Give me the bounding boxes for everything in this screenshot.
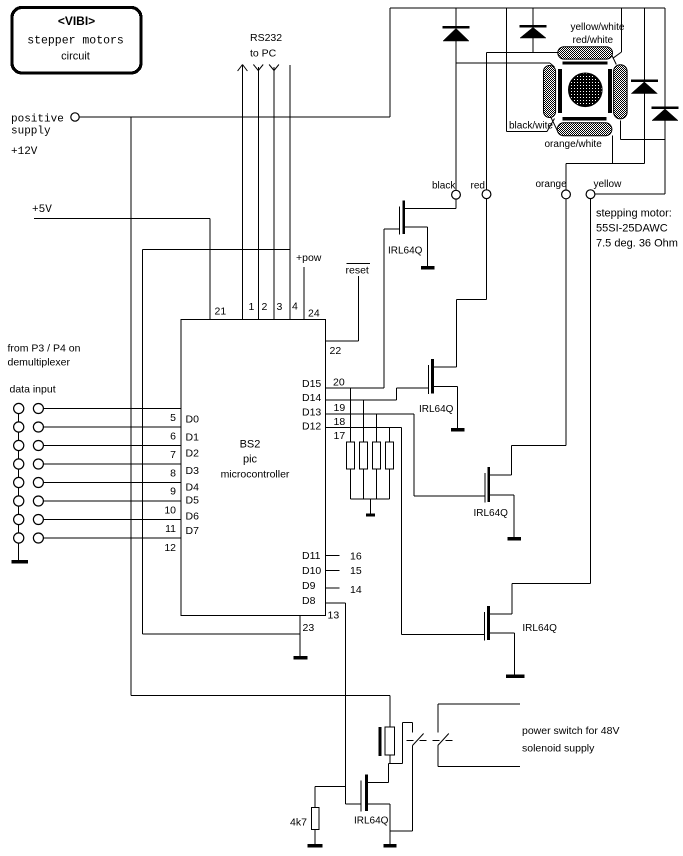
label +5V <box>32 204 52 216</box>
diode D2 (red phase flyback) <box>520 25 547 38</box>
motor M1 rotor <box>569 73 603 107</box>
svg-text:15: 15 <box>350 565 362 577</box>
wire Q4 source <box>487 632 515 634</box>
label RS232 to PC <box>250 32 282 60</box>
wire relay coil bottom to Q5 drain <box>389 755 403 783</box>
connector circle data input D1 <box>33 422 43 432</box>
ground for resistor network <box>366 499 375 517</box>
motor M1 right coil (yellow/white) <box>614 65 628 119</box>
svg-text:<VIBI>: <VIBI> <box>58 14 95 28</box>
label D14 <box>302 392 321 404</box>
label BS2 pic microcontroller <box>221 439 290 481</box>
wire RS232 line 2 (pin 2) with down arrow <box>253 65 263 320</box>
relay K1 coil <box>385 727 394 755</box>
wire pin 22 to reset <box>326 276 359 341</box>
label 4k7 <box>290 817 307 829</box>
wire orange terminal to motor bottom coil <box>566 136 645 191</box>
connector circle data input D0 <box>33 404 43 414</box>
pin label 20 <box>333 377 345 389</box>
svg-text:11: 11 <box>165 523 176 535</box>
label D3 <box>186 465 200 477</box>
motor M1 bottom stator bar <box>562 117 606 120</box>
terminal circle orange <box>562 190 571 199</box>
pin label 3 <box>277 301 283 313</box>
svg-text:7: 7 <box>170 449 176 461</box>
wire RS232 line 4 (pin 4) <box>289 65 291 320</box>
connector circle left column row 3 <box>14 440 24 450</box>
pin label 1 <box>249 301 255 313</box>
svg-text:D14: D14 <box>302 392 321 404</box>
svg-text:IRL64Q: IRL64Q <box>354 816 389 827</box>
svg-text:6: 6 <box>170 431 176 443</box>
svg-text:3: 3 <box>277 301 283 313</box>
diode D4 (yellow phase flyback) <box>652 107 679 121</box>
wire pin 17 D12 to Q4 gate <box>326 428 485 635</box>
pin label 15 <box>350 565 362 577</box>
motor M1 left coil (black/wite) <box>544 66 556 118</box>
wire relay coil feed <box>389 696 391 728</box>
label from P3 / P4 on demultiplexer <box>8 343 81 369</box>
connector circle left column row 2 <box>14 422 24 432</box>
svg-text:+12V: +12V <box>11 146 38 158</box>
transistor Q5 IRL64Q <box>361 775 368 812</box>
svg-text:D2: D2 <box>186 448 200 460</box>
switch S1 contact (relay side) <box>413 723 424 831</box>
wire pin 14 stub <box>326 587 340 589</box>
transistor Q3 IRL64Q <box>485 467 490 502</box>
label red <box>471 181 485 192</box>
wire yellow terminal to motor right coil <box>595 121 665 194</box>
wire diode D1 to black terminal <box>455 41 457 190</box>
wire resistor R2 top lead <box>363 400 365 442</box>
wire Q1 source <box>402 226 427 228</box>
label D8 <box>302 595 316 607</box>
pin label 21 <box>215 306 227 318</box>
terminal circle positive supply <box>71 113 79 121</box>
label yellow/white <box>571 22 625 33</box>
wire +12V drop on left <box>130 117 132 696</box>
svg-text:8: 8 <box>170 468 176 480</box>
wire diode D4 anode drop <box>664 8 666 107</box>
resistor R4 <box>385 442 393 469</box>
wire pin 13 D8 to Q5 gate <box>326 603 361 804</box>
wire Q2 source <box>431 386 457 388</box>
svg-text:to PC: to PC <box>250 48 277 60</box>
svg-text:supply: supply <box>11 126 51 138</box>
svg-text:4k7: 4k7 <box>290 817 307 829</box>
pin label 7 <box>170 449 176 461</box>
transistor Q1 IRL64Q <box>400 201 405 235</box>
svg-text:red/white: red/white <box>573 35 614 46</box>
wire Q4 drain to yellow net <box>487 199 591 614</box>
wire motor common (red/white, yellow/white) to +12V rail <box>612 8 622 65</box>
motor M1 right stator bar <box>608 69 612 113</box>
svg-text:IRL64Q: IRL64Q <box>388 246 423 257</box>
transistor Q2 IRL64Q <box>429 359 434 394</box>
terminal circle red <box>482 190 491 199</box>
wire switch return to ground node <box>390 830 413 832</box>
label D12 <box>302 421 321 433</box>
svg-text:19: 19 <box>334 402 346 414</box>
label Q3 value IRL64Q <box>474 508 509 519</box>
label yellow <box>594 179 623 190</box>
pin label 14 <box>350 584 362 596</box>
label red/white <box>573 35 614 46</box>
wire diode D2 to red net <box>532 38 534 53</box>
svg-text:RS232: RS232 <box>250 32 282 44</box>
resistor R2 <box>360 442 368 469</box>
svg-text:BS2: BS2 <box>240 439 261 451</box>
label D10 <box>302 565 321 577</box>
pin label 8 <box>170 468 176 480</box>
wire red terminal to Q2 drain <box>456 199 486 300</box>
wire diode D3 anode drop <box>643 8 645 80</box>
pin label 6 <box>170 431 176 443</box>
label power switch for 48V solenoid supply <box>522 725 619 755</box>
label black <box>432 181 456 192</box>
wire +12V supply horizontal <box>79 116 390 118</box>
wire RS232 line 1 (pin 1) with up arrow <box>238 65 248 320</box>
motor M1 top coil (red/white) <box>558 47 613 59</box>
pin label 23 <box>303 622 315 634</box>
wire 48V supply top <box>438 703 520 705</box>
svg-text:5: 5 <box>170 412 176 424</box>
pin label 5 <box>170 412 176 424</box>
svg-text:18: 18 <box>334 416 346 428</box>
wire 48V supply bottom <box>438 765 520 767</box>
label black/wite <box>509 121 553 132</box>
wire pin 19 D14 to Q2 gate <box>326 388 429 400</box>
svg-text:16: 16 <box>350 551 362 563</box>
svg-text:microcontroller: microcontroller <box>221 469 290 481</box>
connector circle left column row 8 <box>14 533 24 543</box>
svg-text:demultiplexer: demultiplexer <box>8 357 71 369</box>
wire Q5 drain <box>365 782 389 784</box>
svg-text:23: 23 <box>303 622 315 634</box>
connector circle data input D6 <box>33 515 43 525</box>
label Q2 value IRL64Q <box>419 404 454 415</box>
label D1 <box>186 432 200 444</box>
ground for Q1 source <box>421 227 435 269</box>
wire red net to motor top coil <box>487 53 558 191</box>
wire diode D1 anode drop <box>455 8 457 26</box>
svg-text:yellow: yellow <box>594 179 623 190</box>
wire diode D2 anode drop <box>532 8 534 25</box>
svg-text:data input: data input <box>10 384 56 396</box>
pin label 17 <box>334 430 346 442</box>
wire resistor R2 bottom lead <box>363 469 365 499</box>
wire resistor R1 bottom lead <box>350 469 352 499</box>
svg-text:D11: D11 <box>302 550 321 562</box>
wire +5V to pin 21 <box>34 219 210 320</box>
svg-text:20: 20 <box>333 377 345 389</box>
resistor R5 4k7 <box>311 807 319 829</box>
svg-text:9: 9 <box>170 486 176 498</box>
svg-text:D0: D0 <box>186 414 200 426</box>
wire diode D3 to orange net <box>643 94 645 164</box>
motor M1 bottom coil (orange/white) <box>557 123 612 136</box>
svg-text:4: 4 <box>292 301 298 313</box>
wire data input D1 to pin 6 <box>43 426 181 428</box>
svg-text:2: 2 <box>262 301 268 313</box>
svg-text:from P3 / P4 on: from P3 / P4 on <box>8 343 81 355</box>
label orange <box>536 179 568 190</box>
connector circle left column row 1 <box>14 403 24 413</box>
wire ground chain of input connectors <box>18 409 20 561</box>
wire motor common (black/wite, orange/white) to +12V rail <box>507 8 558 132</box>
svg-text:power switch for 48V: power switch for 48V <box>522 725 619 737</box>
connector circle left column row 6 <box>14 496 24 506</box>
label D7 <box>186 525 200 537</box>
svg-text:21: 21 <box>215 306 227 318</box>
ground for Q5 source <box>384 804 397 848</box>
svg-text:D10: D10 <box>302 565 321 577</box>
wire Q3 source <box>487 494 513 496</box>
svg-text:+5V: +5V <box>32 204 52 216</box>
wire Q2 drain riser <box>431 300 456 368</box>
motor M1 left stator bar <box>558 69 562 113</box>
ground for pin 23 VSS <box>294 616 308 660</box>
svg-text:IRL64Q: IRL64Q <box>474 508 509 519</box>
svg-text:IRL64Q: IRL64Q <box>522 623 557 634</box>
label D4 <box>186 482 200 494</box>
pin label 22 <box>330 345 342 357</box>
terminal circle black <box>452 190 461 199</box>
svg-text:D12: D12 <box>302 421 321 433</box>
label reset with overline <box>346 263 371 277</box>
svg-text:D7: D7 <box>186 525 200 537</box>
wire Q1 drain to black terminal <box>402 199 456 209</box>
svg-text:55SI-25DAWC: 55SI-25DAWC <box>596 223 668 235</box>
transistor Q4 IRL64Q <box>484 606 489 641</box>
wire resistor R3 bottom lead <box>375 469 377 499</box>
label orange/white <box>545 139 603 150</box>
wire resistor R1 top lead <box>350 388 352 442</box>
svg-text:22: 22 <box>330 345 342 357</box>
wire resistor R4 top lead <box>388 428 390 442</box>
diode D1 (black phase flyback) <box>443 26 470 41</box>
label Q4 value IRL64Q <box>522 623 557 634</box>
label data input <box>10 384 56 396</box>
connector circle left column row 5 <box>14 477 24 487</box>
wire diode D4 to yellow net <box>664 121 666 194</box>
connector circle left column row 4 <box>14 459 24 469</box>
terminal circle yellow <box>586 190 595 199</box>
label +12V <box>11 146 38 158</box>
wire data input D3 to pin 8 <box>43 463 181 465</box>
wire top +12V rail <box>390 7 665 9</box>
label D9 <box>302 580 316 592</box>
svg-text:reset: reset <box>346 265 369 277</box>
pin label 18 <box>334 416 346 428</box>
svg-text:IRL64Q: IRL64Q <box>419 404 454 415</box>
ground for Q2 source <box>451 387 465 432</box>
svg-text:stepping motor:: stepping motor: <box>596 208 672 220</box>
connector circle data input D4 <box>33 478 43 488</box>
wire black net to motor left coil <box>456 63 555 67</box>
pin label 2 <box>262 301 268 313</box>
wire +pow to pin 24 <box>303 267 305 320</box>
wire RS232 line 3 (pin 3) with down arrow <box>269 65 279 320</box>
wire data input D6 to pin 11 <box>43 519 181 521</box>
label D6 <box>186 511 200 523</box>
connector circle data input D5 <box>33 496 43 506</box>
pin label 19 <box>334 402 346 414</box>
resistor R1 <box>347 442 355 469</box>
wire pin 18 D13 to Q3 gate <box>326 414 485 496</box>
svg-text:orange: orange <box>536 179 568 190</box>
svg-text:positive: positive <box>11 114 64 126</box>
svg-text:D15: D15 <box>302 378 321 390</box>
wire data input D7 to pin 12 <box>43 537 181 539</box>
svg-text:orange/white: orange/white <box>545 139 603 150</box>
ground for Q4 source <box>506 633 525 678</box>
ground for 4k7 resistor <box>308 830 323 848</box>
label positive supply <box>11 114 64 138</box>
wire pin 20 D15 to Q1 gate <box>326 229 400 388</box>
label +pow <box>296 252 322 264</box>
svg-text:7.5 deg. 36 Ohm: 7.5 deg. 36 Ohm <box>596 238 678 250</box>
label D15 <box>302 378 321 390</box>
wire data input D0 to pin 5 <box>43 408 181 410</box>
wire resistor R3 top lead <box>375 414 377 442</box>
connector circle data input D3 <box>33 459 43 469</box>
microcontroller U1 BS2 box outline <box>181 320 326 616</box>
pin label 9 <box>170 486 176 498</box>
svg-text:D4: D4 <box>186 482 200 494</box>
title box <VIBI> stepper motors circuit <box>12 8 141 74</box>
svg-text:13: 13 <box>328 610 340 622</box>
svg-text:D8: D8 <box>302 595 316 607</box>
svg-text:D9: D9 <box>302 580 316 592</box>
wire data input D4 to pin 9 <box>43 482 181 484</box>
label Q5 value IRL64Q <box>354 816 389 827</box>
wire pin 16 stub <box>326 555 340 557</box>
svg-text:+pow: +pow <box>296 252 322 264</box>
label D11 <box>302 550 321 562</box>
switch S1 contact (48V side) <box>438 704 449 767</box>
wire switch arm from coil node <box>403 723 413 764</box>
diode D3 (orange phase flyback) <box>631 80 658 94</box>
pin label 11 <box>165 523 176 535</box>
pin label 24 <box>308 308 320 320</box>
svg-text:red: red <box>471 181 485 192</box>
svg-text:D5: D5 <box>186 495 200 507</box>
svg-text:circuit: circuit <box>61 51 90 63</box>
wire pin 4 to VSS link <box>143 249 301 634</box>
wire resistor R4 bottom lead <box>388 469 390 499</box>
ground for input connector chain <box>12 555 29 564</box>
svg-text:D1: D1 <box>186 432 200 444</box>
pin label 12 <box>164 542 176 554</box>
svg-text:black: black <box>432 181 456 192</box>
svg-text:10: 10 <box>164 505 176 517</box>
label D2 <box>186 448 200 460</box>
svg-text:solenoid supply: solenoid supply <box>522 743 595 755</box>
switch S1 mechanical link (dashed) <box>407 740 457 742</box>
pin label 13 <box>328 610 340 622</box>
svg-text:D13: D13 <box>302 407 321 419</box>
label Q1 value IRL64Q <box>388 246 423 257</box>
pin label 16 <box>350 551 362 563</box>
wire +12V bottom run to relay coil <box>131 695 390 697</box>
wire Q5 source to ground <box>365 803 390 805</box>
wire +12V supply riser to top rail <box>389 8 391 117</box>
svg-text:14: 14 <box>350 584 362 596</box>
label stepping motor specs <box>596 208 678 250</box>
wire resistor network common bus <box>351 498 390 500</box>
svg-text:black/wite: black/wite <box>509 121 553 132</box>
svg-text:D6: D6 <box>186 511 200 523</box>
relay K1 core bar <box>379 727 382 756</box>
wire data input D2 to pin 7 <box>43 445 181 447</box>
connector circle data input D2 <box>33 441 43 451</box>
svg-text:24: 24 <box>308 308 320 320</box>
wire pin 15 stub <box>326 570 340 572</box>
svg-text:1: 1 <box>249 301 255 313</box>
svg-text:17: 17 <box>334 430 346 442</box>
connector circle left column row 7 <box>14 514 24 524</box>
pin label 4 <box>292 301 298 313</box>
wire 4k7 pull-down branch <box>315 786 345 807</box>
wire data input D5 to pin 10 <box>43 500 181 502</box>
svg-text:stepper motors: stepper motors <box>27 35 124 48</box>
resistor R3 <box>372 442 380 469</box>
ground for Q3 source <box>507 495 521 541</box>
svg-text:pic: pic <box>243 454 258 466</box>
motor M1 top stator bar <box>562 61 607 64</box>
svg-text:yellow/white: yellow/white <box>571 22 625 33</box>
svg-text:12: 12 <box>164 542 176 554</box>
connector circle data input D7 <box>33 533 43 543</box>
svg-text:D3: D3 <box>186 465 200 477</box>
label D0 <box>186 414 200 426</box>
label D13 <box>302 407 321 419</box>
pin label 10 <box>164 505 176 517</box>
label D5 <box>186 495 200 507</box>
wire Q3 drain to orange net <box>487 199 565 475</box>
